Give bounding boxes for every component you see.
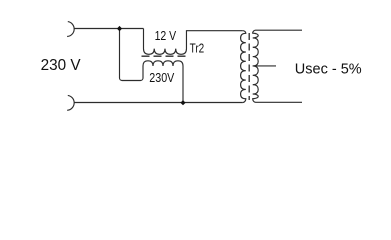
core of T1 (dashed) bbox=[248, 33, 250, 100]
svg-text:Tr2: Tr2 bbox=[190, 42, 205, 56]
winding Tr2 230V (shunt winding, bumps up) bbox=[143, 61, 183, 103]
junction top rail bbox=[117, 26, 122, 31]
connector J2 (230V input bottom terminal) bbox=[67, 95, 74, 110]
svg-text:12 V: 12 V bbox=[155, 28, 177, 43]
wire secondary center tap bbox=[253, 65, 276, 67]
transformer T1 primary winding (bumps left) bbox=[241, 31, 246, 103]
svg-text:230 V: 230 V bbox=[41, 57, 82, 74]
wire bottom rail from J2 to transformer primary bbox=[74, 102, 243, 104]
transformer T1 secondary winding (bumps right) bbox=[253, 30, 302, 102]
junction bottom rail bbox=[180, 100, 185, 105]
connector J1 (230V input top terminal) bbox=[67, 22, 74, 37]
svg-text:230V: 230V bbox=[149, 70, 174, 85]
core of Tr2 (dashed) bbox=[142, 55, 189, 57]
wire top-left rail from J1 to Tr2 12V winding bbox=[74, 28, 144, 30]
wire tap from top rail junction down and right to 230V winding bbox=[120, 29, 144, 81]
winding Tr2 12V (series winding, bumps down) bbox=[144, 29, 243, 55]
svg-text:Usec - 5%: Usec - 5% bbox=[295, 62, 362, 78]
